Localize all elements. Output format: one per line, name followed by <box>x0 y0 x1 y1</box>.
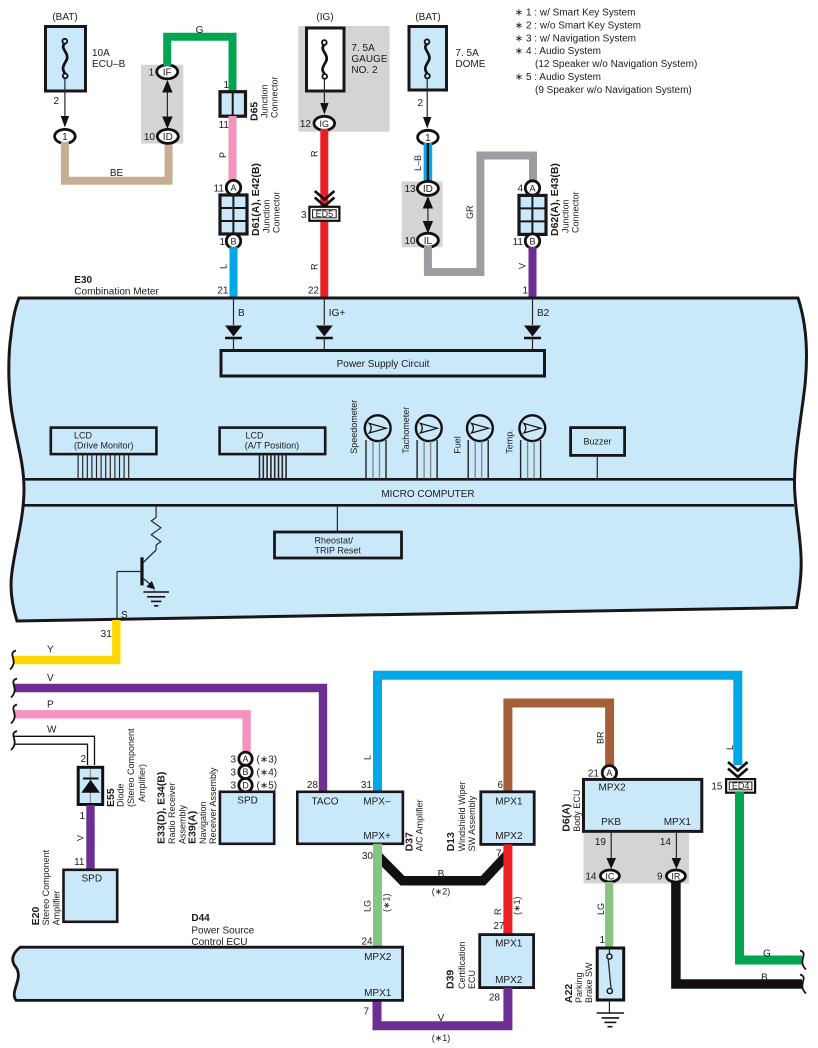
svg-text:E20: E20 <box>30 907 42 926</box>
svg-text:Radio Receiver: Radio Receiver <box>167 782 177 844</box>
svg-text:(∗5): (∗5) <box>257 781 278 792</box>
wire fuse to connector 1 <box>423 78 431 129</box>
wire BE (tan) <box>65 142 169 181</box>
wire R (red) D13 to D39 <box>503 844 512 935</box>
svg-text:10: 10 <box>404 236 416 247</box>
connector circle 1 <box>55 129 76 143</box>
svg-text:27: 27 <box>493 921 505 932</box>
svg-text:B: B <box>761 973 768 984</box>
svg-text:(∗3): (∗3) <box>257 754 278 765</box>
svg-text:2: 2 <box>417 98 423 109</box>
break symbol G right <box>800 951 806 970</box>
svg-text:11: 11 <box>219 120 230 131</box>
svg-text:R: R <box>493 908 503 915</box>
svg-text:LCD: LCD <box>74 431 93 441</box>
shaded panel ID/IL <box>402 182 443 248</box>
svg-text:LG: LG <box>362 900 372 912</box>
svg-text:(Stereo Component: (Stereo Component <box>126 728 136 807</box>
svg-text:6: 6 <box>497 780 503 791</box>
diode E55 <box>78 728 147 807</box>
break symbol V <box>11 679 17 698</box>
svg-text:L–B: L–B <box>413 155 423 171</box>
svg-text:R: R <box>309 263 319 270</box>
svg-text:Parking: Parking <box>574 972 584 1003</box>
ground (transistor emitter) <box>143 592 169 606</box>
wire G (green) ED4 to right edge <box>740 792 803 960</box>
svg-text:DOME: DOME <box>455 59 485 70</box>
junction connector D65 <box>219 76 280 131</box>
svg-text:MPX+: MPX+ <box>363 831 391 842</box>
svg-text:ED5: ED5 <box>316 209 334 219</box>
svg-text:B: B <box>242 767 248 777</box>
svg-text:Receiver Assembly: Receiver Assembly <box>208 767 218 844</box>
svg-text:Tachometer: Tachometer <box>401 407 411 454</box>
svg-text:4: 4 <box>517 184 523 195</box>
svg-text:(IG): (IG) <box>316 12 333 23</box>
svg-text:Navigation: Navigation <box>198 801 208 844</box>
svg-text:D13: D13 <box>445 832 457 851</box>
svg-text:11: 11 <box>214 183 225 194</box>
svg-text:11: 11 <box>513 237 524 248</box>
comb lines LCD2 <box>260 455 287 479</box>
svg-text:IR: IR <box>671 871 681 881</box>
fuel gauge <box>453 415 493 478</box>
wire L (blue) <box>230 247 238 299</box>
svg-text:Body ECU: Body ECU <box>572 790 582 832</box>
svg-text:Junction: Junction <box>561 199 571 233</box>
shaded panel (IG) <box>298 26 389 132</box>
svg-text:ID: ID <box>423 184 433 195</box>
diode (B2 input) <box>524 326 541 351</box>
svg-text:MPX1: MPX1 <box>495 797 523 808</box>
shaded panel IF/ID <box>141 65 183 144</box>
svg-text:IG+: IG+ <box>329 308 346 319</box>
ground connector ED4 <box>711 779 755 793</box>
svg-text:Connector: Connector <box>571 191 581 233</box>
svg-text:P: P <box>218 152 228 158</box>
connector IF <box>148 65 177 79</box>
svg-text:TACO: TACO <box>312 797 339 808</box>
svg-text:IL: IL <box>424 236 433 247</box>
connector B of D61 <box>219 234 240 248</box>
svg-text:TRIP Reset: TRIP Reset <box>315 546 362 556</box>
wire V (E55 to E20) <box>86 805 94 870</box>
junction connector D62(A), E43(B) <box>519 163 581 236</box>
svg-text:SPD: SPD <box>237 796 258 807</box>
transistor Q (meter output) <box>117 545 156 592</box>
svg-text:Fuel: Fuel <box>453 436 463 454</box>
svg-text:1: 1 <box>79 811 85 822</box>
svg-text:LCD: LCD <box>246 431 265 441</box>
svg-text:Junction: Junction <box>262 199 272 233</box>
svg-text:ED4: ED4 <box>732 781 750 791</box>
svg-text:(∗1): (∗1) <box>381 893 391 912</box>
svg-text:1: 1 <box>62 132 68 143</box>
svg-text:LG: LG <box>596 903 606 915</box>
amplifier E20 (SPD) <box>30 849 117 925</box>
svg-text:12: 12 <box>300 119 312 130</box>
svg-text:30: 30 <box>362 851 374 862</box>
connector A (radio, *3) <box>230 752 277 765</box>
svg-text:Stereo Component: Stereo Component <box>41 849 51 925</box>
svg-text:21: 21 <box>588 769 600 780</box>
wire R red (upper) <box>320 129 328 299</box>
connector IL (10) <box>404 233 438 247</box>
svg-text:E30: E30 <box>74 275 92 286</box>
body ECU D6(A) <box>561 779 702 831</box>
svg-text:D62(A), E43(B): D62(A), E43(B) <box>549 163 561 236</box>
svg-text:28: 28 <box>489 993 501 1004</box>
svg-text:MPX2: MPX2 <box>364 952 392 963</box>
svg-text:MPX2: MPX2 <box>599 783 627 794</box>
comb lines LCD1 <box>78 455 129 479</box>
diode (IG+ input) <box>316 326 333 351</box>
svg-text:28: 28 <box>307 780 319 791</box>
wire V (violet) to TACO <box>14 688 323 792</box>
label D44 Power Source Control ECU <box>191 913 254 948</box>
svg-text:E33(D), E34(B): E33(D), E34(B) <box>156 772 168 844</box>
svg-text:W: W <box>47 725 57 736</box>
wire B (black) IR to right edge <box>676 882 802 984</box>
connector circle 1 (DOME) <box>418 130 439 144</box>
temp gauge <box>504 415 545 478</box>
svg-text:(9 Speaker w/o Navigation Syst: (9 Speaker w/o Navigation System) <box>535 85 692 96</box>
svg-text:A: A <box>230 183 236 193</box>
junction connector D61(A), E42(B) <box>220 163 282 236</box>
connector B (radio, *4) <box>230 765 277 778</box>
ground connector ED5 <box>301 207 339 221</box>
svg-text:B: B <box>230 237 236 247</box>
svg-text:21: 21 <box>217 286 229 297</box>
svg-text:IF: IF <box>163 68 172 79</box>
svg-text:MPX1: MPX1 <box>664 817 692 828</box>
wire V (*1) D39 to D44 <box>377 988 508 1026</box>
svg-text:(BAT): (BAT) <box>52 12 77 23</box>
svg-text:ID: ID <box>163 132 173 143</box>
svg-text:G: G <box>763 949 771 960</box>
svg-text:L: L <box>362 755 372 760</box>
svg-text:S: S <box>121 610 128 621</box>
svg-text:B: B <box>238 308 245 319</box>
connector ID (10) <box>144 129 178 143</box>
svg-text:Speedometer: Speedometer <box>349 400 359 454</box>
shield chevron ED5 <box>315 191 335 206</box>
svg-text:Diode: Diode <box>116 783 126 807</box>
power source control ECU D44 (torn edge) <box>13 947 403 1000</box>
wire LG (IC to parking brake SW) <box>605 882 613 949</box>
svg-text:Y: Y <box>47 645 54 656</box>
svg-text:10A: 10A <box>92 48 110 59</box>
fuse 7.5A GAUGE NO.2 <box>307 12 388 91</box>
svg-text:14: 14 <box>660 837 672 848</box>
svg-text:1: 1 <box>219 237 225 248</box>
svg-text:ECU: ECU <box>467 970 477 989</box>
svg-text:B: B <box>529 237 535 247</box>
svg-text:B: B <box>438 869 445 880</box>
svg-text:L: L <box>218 264 228 269</box>
svg-text:7. 5A: 7. 5A <box>455 48 479 59</box>
svg-text:V: V <box>438 1013 445 1024</box>
shaded panel IC/IR <box>584 833 690 884</box>
svg-text:2: 2 <box>53 96 59 107</box>
svg-text:IG: IG <box>320 119 330 129</box>
radio receiver SPD box E33/E39 <box>156 767 274 844</box>
svg-text:(∗2): (∗2) <box>432 887 451 897</box>
svg-text:∗ 2 : w/o Smart Key System: ∗ 2 : w/o Smart Key System <box>515 20 641 31</box>
svg-text:MPX1: MPX1 <box>495 939 523 950</box>
double arrow IF-ID <box>162 80 172 129</box>
svg-text:PKB: PKB <box>601 817 621 828</box>
wire W (white ribbon) <box>14 736 95 765</box>
connector B of D62 <box>513 234 540 248</box>
svg-text:∗ 3 : w/ Navigation System: ∗ 3 : w/ Navigation System <box>515 33 636 44</box>
ECU box E30 combination meter (torn edges) <box>9 298 807 621</box>
pin 21 entry node B <box>234 299 246 325</box>
svg-text:D61(A), E42(B): D61(A), E42(B) <box>250 163 262 236</box>
arrow MPX1 to IR <box>672 832 682 869</box>
break symbol P <box>11 705 17 724</box>
fuse 10A ECU-B <box>46 12 126 91</box>
svg-text:31: 31 <box>361 780 373 791</box>
svg-text:3: 3 <box>230 767 236 778</box>
svg-text:11: 11 <box>74 857 85 868</box>
svg-text:D: D <box>242 780 249 790</box>
svg-text:1: 1 <box>599 935 605 946</box>
svg-text:(12 Speaker w/o Navigation Sys: (12 Speaker w/o Navigation System) <box>535 59 697 70</box>
svg-text:Amplifier): Amplifier) <box>137 764 147 802</box>
label E30 Combination Meter <box>74 275 159 298</box>
svg-text:A/C Amplifier: A/C Amplifier <box>415 799 425 851</box>
svg-text:Buzzer: Buzzer <box>583 437 611 447</box>
svg-text:3: 3 <box>230 781 236 792</box>
svg-text:9: 9 <box>657 872 663 883</box>
svg-text:MPX2: MPX2 <box>495 831 523 842</box>
wire GR (gray) <box>428 156 533 273</box>
svg-text:A: A <box>529 183 535 193</box>
svg-text:10: 10 <box>144 132 156 143</box>
wire V (violet) <box>529 247 537 299</box>
svg-text:3: 3 <box>230 754 236 765</box>
svg-text:MICRO COMPUTER: MICRO COMPUTER <box>381 489 474 500</box>
A/C amplifier D37 <box>297 792 424 852</box>
svg-text:Brake SW: Brake SW <box>584 962 594 1003</box>
LCD (Drive Monitor) box <box>51 428 157 455</box>
svg-text:SPD: SPD <box>82 874 103 885</box>
svg-text:MPX1: MPX1 <box>364 988 392 999</box>
svg-text:(∗4): (∗4) <box>257 767 278 778</box>
svg-text:1: 1 <box>148 68 154 79</box>
wire B (*2) black link <box>376 854 508 881</box>
wire G (green) <box>167 37 232 92</box>
svg-text:E39(A): E39(A) <box>187 811 199 844</box>
double arrow ID-IL <box>423 196 433 234</box>
svg-text:BR: BR <box>595 731 605 744</box>
svg-text:∗ 5 : Audio System: ∗ 5 : Audio System <box>515 72 601 83</box>
svg-text:MPX–: MPX– <box>363 797 391 808</box>
micro computer band <box>22 479 795 505</box>
svg-text:ECU–B: ECU–B <box>92 59 126 70</box>
svg-text:Power Source: Power Source <box>191 926 254 937</box>
tachometer gauge <box>401 407 442 479</box>
svg-text:IC: IC <box>605 871 615 881</box>
svg-text:15: 15 <box>711 781 723 792</box>
svg-text:19: 19 <box>595 837 607 848</box>
rheostat / TRIP reset box <box>275 506 402 558</box>
svg-text:7. 5A: 7. 5A <box>351 43 375 54</box>
svg-text:Junction: Junction <box>259 84 269 118</box>
note legend <box>515 8 697 96</box>
break symbol Y <box>10 651 16 670</box>
svg-text:V: V <box>47 673 54 684</box>
svg-text:Certification: Certification <box>457 941 467 989</box>
wire Y (yellow) <box>13 620 116 660</box>
windshield wiper SW assembly D13 <box>445 781 534 851</box>
wire P (pink) <box>229 116 237 182</box>
svg-text:MPX2: MPX2 <box>495 975 523 986</box>
svg-text:1: 1 <box>425 133 431 144</box>
svg-text:14: 14 <box>585 872 597 883</box>
wire BR (brown) D13 to D6 <box>508 703 610 792</box>
svg-text:7: 7 <box>363 1007 369 1018</box>
break symbol W <box>11 731 17 750</box>
svg-text:13: 13 <box>404 184 416 195</box>
pin 21 / connector A (D6) <box>588 766 617 780</box>
svg-text:D37: D37 <box>403 832 415 851</box>
buzzer box <box>571 428 625 479</box>
connector A of D62 <box>517 181 539 195</box>
svg-text:GAUGE: GAUGE <box>351 54 387 65</box>
svg-text:(∗1): (∗1) <box>432 1033 451 1043</box>
break symbol B right <box>800 975 806 994</box>
svg-text:∗ 1 : w/ Smart Key System: ∗ 1 : w/ Smart Key System <box>515 8 636 19</box>
speedometer gauge <box>349 400 391 479</box>
pin 22 entry node IG+ <box>324 299 345 325</box>
svg-text:A: A <box>242 754 248 764</box>
svg-text:Connector: Connector <box>272 191 282 233</box>
svg-text:(A/T Position): (A/T Position) <box>245 441 299 451</box>
svg-text:Temp.: Temp. <box>504 429 514 454</box>
svg-text:P: P <box>47 700 54 711</box>
connector A of D61 <box>214 180 241 194</box>
svg-text:SW Assembly: SW Assembly <box>467 795 477 851</box>
parking brake switch A22 <box>563 948 624 1003</box>
svg-text:7: 7 <box>496 849 502 860</box>
svg-text:Power Supply Circuit: Power Supply Circuit <box>337 359 430 370</box>
svg-text:1: 1 <box>522 286 528 297</box>
svg-text:(∗1): (∗1) <box>512 896 522 915</box>
svg-text:L: L <box>725 745 735 750</box>
svg-text:D44: D44 <box>191 913 210 924</box>
wire LG (light green) MPX+ to D44 <box>373 844 382 948</box>
svg-text:V: V <box>76 835 86 841</box>
svg-text:BE: BE <box>110 168 124 179</box>
shield chevron ED4 <box>728 762 748 777</box>
wire L-B (blue/black) <box>424 143 433 182</box>
pin 1 entry node B2 <box>533 299 550 325</box>
svg-text:R: R <box>309 150 319 157</box>
svg-text:Windshield Wiper: Windshield Wiper <box>457 781 467 851</box>
svg-text:Amplifier: Amplifier <box>51 890 61 925</box>
resistor (dimmer) <box>151 506 161 545</box>
fuse 7.5A DOME <box>409 12 486 90</box>
connector ID (13) <box>404 181 438 195</box>
connector D (radio, *5) <box>230 779 277 792</box>
arrow PKB to IC <box>606 832 616 869</box>
svg-text:V: V <box>517 263 527 269</box>
svg-text:3: 3 <box>301 210 307 221</box>
certification ECU D39 <box>445 935 534 989</box>
svg-text:D39: D39 <box>445 970 457 989</box>
diode (B input) <box>225 326 242 351</box>
svg-text:Rheostat/: Rheostat/ <box>315 536 354 546</box>
svg-text:D6(A): D6(A) <box>561 804 573 832</box>
svg-text:B2: B2 <box>537 308 550 319</box>
wire fuse to IG connector <box>320 79 328 115</box>
wire fuse to connector 1 <box>61 78 69 127</box>
ground (A22) <box>597 1000 624 1027</box>
svg-text:22: 22 <box>308 286 320 297</box>
svg-text:31: 31 <box>101 629 113 640</box>
svg-text:G: G <box>196 25 204 36</box>
svg-text:(Drive Monitor): (Drive Monitor) <box>74 441 134 451</box>
connector IG (12) <box>300 116 335 130</box>
svg-text:1: 1 <box>223 80 229 91</box>
svg-text:Connector: Connector <box>269 76 279 118</box>
svg-text:A: A <box>606 768 612 778</box>
node S / pin 31 <box>101 572 128 641</box>
power supply circuit box <box>221 351 545 377</box>
svg-text:(BAT): (BAT) <box>415 12 440 23</box>
svg-text:2: 2 <box>80 754 86 765</box>
wire P (pink) to radio <box>14 714 247 753</box>
connector IC (14) <box>585 870 619 883</box>
svg-text:GR: GR <box>465 205 475 219</box>
svg-text:NO. 2: NO. 2 <box>351 65 378 76</box>
svg-text:∗ 4 : Audio System: ∗ 4 : Audio System <box>515 46 601 57</box>
LCD (A/T Position) box <box>220 428 326 455</box>
wire L (blue) MPX- to ED4 <box>378 675 738 792</box>
connector IR (9) <box>657 870 685 883</box>
svg-text:Combination Meter: Combination Meter <box>74 287 159 298</box>
